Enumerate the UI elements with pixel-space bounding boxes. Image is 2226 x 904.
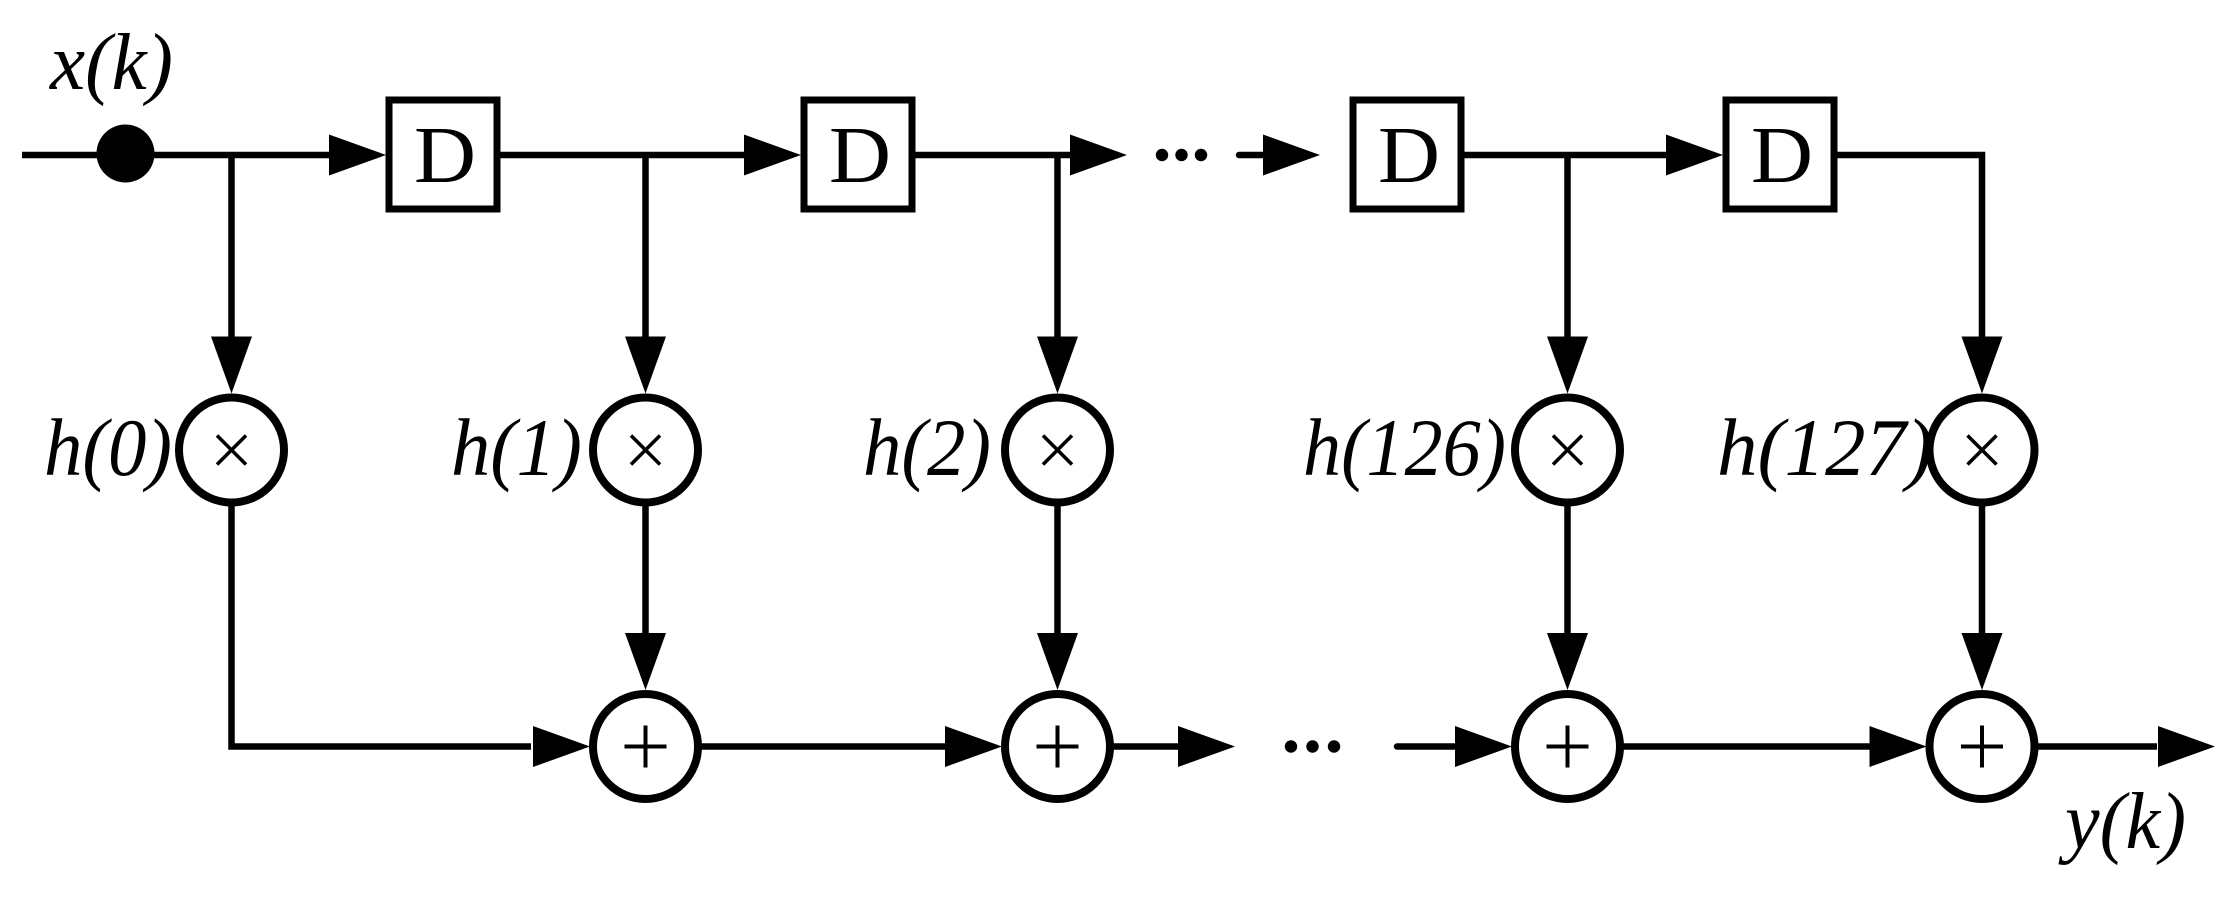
- arrowhead into adder 3 left: [1455, 726, 1512, 767]
- node: input junction dot: [97, 125, 155, 183]
- delay block D3: [1353, 100, 1461, 209]
- wire arrowhead after node 3: [1070, 135, 1127, 176]
- wire: branch down to multiplier h(2): [1054, 155, 1061, 339]
- delay block D1: [389, 100, 497, 209]
- wire: h(126) product down to adder: [1564, 506, 1571, 635]
- svg-text:h(1): h(1): [451, 402, 582, 493]
- wire: branch down to multiplier h(0): [228, 155, 235, 339]
- svg-text:h(127): h(127): [1717, 402, 1933, 493]
- wire: h(0) product down and right into adder 1: [232, 506, 532, 747]
- wire: D2 output, tap at node 3: [915, 152, 1071, 159]
- adder 4 (sum node): [1930, 694, 2035, 799]
- svg-text:D: D: [829, 110, 891, 200]
- svg-text:D: D: [1378, 110, 1440, 200]
- arrowhead into adder 2 top: [1037, 633, 1078, 690]
- wire: output segment: [2038, 743, 2158, 750]
- adder 1 (sum node): [593, 694, 698, 799]
- delay block D2: [804, 100, 912, 209]
- multiplier h(127): [1930, 398, 2035, 503]
- arrowhead into h(127): [1962, 337, 2003, 394]
- arrowhead into adder 2 left: [945, 726, 1002, 767]
- wire: D1 output to D2, tap at node 2: [500, 152, 745, 159]
- wire: branch down to multiplier h(126): [1564, 155, 1571, 339]
- svg-text:h(0): h(0): [44, 402, 172, 493]
- multiplier h(126): [1515, 398, 1620, 503]
- svg-text:y(k): y(k): [2058, 778, 2186, 866]
- ellipsis dots (top chain continues): [1156, 149, 1168, 161]
- wire: adder 3 to adder 4: [1623, 743, 1870, 750]
- wire: D3 output to D4, tap at node 4: [1464, 152, 1667, 159]
- wire arrowhead toward D3: [1263, 135, 1320, 176]
- arrowhead into h(0): [211, 337, 252, 394]
- adder 2 (sum node): [1005, 694, 1110, 799]
- arrowhead into adder 4 top: [1962, 633, 2003, 690]
- arrowhead into h(2): [1037, 337, 1078, 394]
- wire: stub toward adder 3: [1397, 743, 1454, 750]
- arrowhead into adder 1 top: [625, 633, 666, 690]
- multiplier h(0): [179, 398, 284, 503]
- arrowhead into h(1): [625, 337, 666, 394]
- wire: adder 1 to adder 2: [701, 743, 945, 750]
- arrowhead after adder 2: [1178, 726, 1235, 767]
- wire: D4 output with corner down to h(127): [1837, 155, 1983, 339]
- ellipsis dots (bottom chain continues): [1285, 740, 1297, 752]
- wire: input segment: [22, 152, 330, 159]
- arrowhead output y(k): [2158, 726, 2215, 767]
- arrowhead into adder 4 left: [1870, 726, 1927, 767]
- svg-text:D: D: [414, 110, 476, 200]
- wire: h(2) product down to adder: [1054, 506, 1061, 635]
- wire: adder 2 output: [1113, 743, 1178, 750]
- arrowhead into h(126): [1547, 337, 1588, 394]
- svg-text:D: D: [1751, 110, 1813, 200]
- wire arrowhead into D4: [1666, 135, 1723, 176]
- adder 3 (sum node): [1515, 694, 1620, 799]
- svg-text:h(126): h(126): [1303, 402, 1506, 493]
- arrowhead into adder 1 left: [533, 726, 590, 767]
- wire: h(127) product down to adder: [1979, 506, 1986, 635]
- wire arrowhead into D2: [744, 135, 801, 176]
- wire: h(1) product down to adder: [642, 506, 649, 635]
- arrowhead into adder 3 top: [1547, 633, 1588, 690]
- wire: stub toward D3: [1239, 152, 1263, 159]
- multiplier h(2): [1005, 398, 1110, 503]
- multiplier h(1): [593, 398, 698, 503]
- delay block D4: [1726, 100, 1834, 209]
- wire arrowhead into D1: [329, 135, 386, 176]
- wire: branch down to multiplier h(1): [642, 155, 649, 339]
- svg-text:x(k): x(k): [49, 19, 173, 107]
- svg-text:h(2): h(2): [863, 402, 991, 493]
